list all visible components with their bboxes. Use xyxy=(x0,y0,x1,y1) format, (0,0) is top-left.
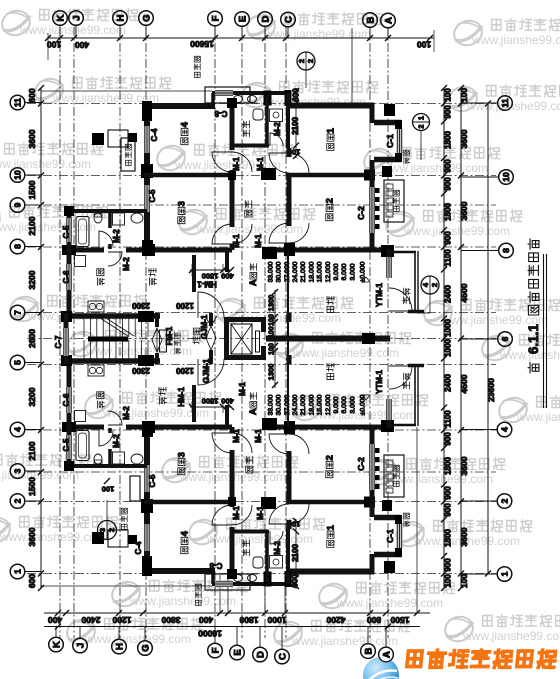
svg-text:C-1: C-1 xyxy=(385,134,395,148)
left dimension band xyxy=(40,88,42,588)
svg-text:GJM-1: GJM-1 xyxy=(200,314,209,339)
svg-text:3600: 3600 xyxy=(459,456,469,475)
svg-text:15.000: 15.000 xyxy=(317,394,324,415)
corridor east wall / bedroom1 west xyxy=(287,148,292,157)
svg-text:E: E xyxy=(237,16,248,22)
svg-text:C-1: C-1 xyxy=(385,529,395,543)
svg-text:±0.000: ±0.000 xyxy=(359,394,366,415)
svg-text:M-1: M-1 xyxy=(232,234,241,248)
svg-text:100: 100 xyxy=(443,88,452,102)
svg-text:C-5: C-5 xyxy=(148,474,157,487)
bump edge extension line xyxy=(41,90,212,92)
floor level list bottom xyxy=(267,394,274,415)
svg-text:4: 4 xyxy=(500,427,510,432)
svg-text:9: 9 xyxy=(13,202,23,207)
svg-text:1800: 1800 xyxy=(443,203,452,221)
svg-text:21.000: 21.000 xyxy=(300,261,307,282)
svg-text:F: F xyxy=(210,647,221,653)
svg-text:1: 1 xyxy=(325,127,336,133)
bath fixtures: tub toilet washer basin xyxy=(76,217,89,247)
svg-text:400: 400 xyxy=(48,615,62,625)
svg-text:M-1: M-1 xyxy=(256,157,265,171)
svg-text:M-1: M-1 xyxy=(238,382,247,396)
bath fixtures xyxy=(234,96,243,103)
svg-text:C-2: C-2 xyxy=(356,206,366,220)
top dimension band xyxy=(48,37,434,39)
AC slab top label xyxy=(194,56,200,77)
svg-text:3800: 3800 xyxy=(161,615,180,625)
axis circles right xyxy=(498,96,513,111)
figure caption 6.1.1 xyxy=(526,239,541,373)
svg-text:1: 1 xyxy=(419,116,426,120)
svg-text:100: 100 xyxy=(269,343,276,355)
svg-text:1800: 1800 xyxy=(239,615,258,625)
svg-text:900: 900 xyxy=(443,177,452,191)
svg-text:3.000: 3.000 xyxy=(349,263,356,280)
svg-text:21.000: 21.000 xyxy=(300,394,307,415)
svg-text:900: 900 xyxy=(443,432,452,446)
svg-text:C-6: C-6 xyxy=(62,270,71,283)
svg-text:1000: 1000 xyxy=(267,615,286,625)
svg-text:1500: 1500 xyxy=(27,477,37,496)
svg-text:C-6: C-6 xyxy=(62,393,71,406)
bedroom3 bottom xyxy=(176,452,187,475)
svg-text:3200: 3200 xyxy=(27,270,37,289)
svg-text:M-2: M-2 xyxy=(112,434,121,448)
stair enclosure walls xyxy=(64,313,69,328)
svg-text:F: F xyxy=(210,15,221,21)
svg-text:M-1: M-1 xyxy=(232,157,241,171)
svg-text:3: 3 xyxy=(176,201,187,206)
svg-text:9.000: 9.000 xyxy=(333,396,340,413)
svg-text:C-2: C-2 xyxy=(356,457,366,471)
svg-text:18.000: 18.000 xyxy=(308,261,315,282)
column xyxy=(61,311,72,322)
svg-text:A: A xyxy=(381,651,392,658)
svg-text:A: A xyxy=(248,408,258,415)
entry wall stub xyxy=(225,252,229,272)
column xyxy=(362,333,375,344)
svg-text:30.000: 30.000 xyxy=(276,261,283,282)
stair mid rail xyxy=(88,337,128,342)
watermarks xyxy=(0,7,138,38)
bedroom1 top xyxy=(325,127,336,150)
svg-text:3: 3 xyxy=(13,468,23,473)
bath north wall xyxy=(66,209,147,213)
door HM-1 xyxy=(198,292,224,318)
dining east wall xyxy=(192,255,196,292)
master bath top xyxy=(243,121,250,137)
bath partition xyxy=(108,211,112,228)
svg-text:100: 100 xyxy=(459,574,469,588)
svg-text:www.jianshe99.com: www.jianshe99.com xyxy=(386,472,493,486)
axis circles top xyxy=(53,11,68,26)
axis circles bottom xyxy=(49,637,64,652)
AC slab east bottom xyxy=(393,465,399,486)
svg-text:GJM-1: GJM-1 xyxy=(202,358,211,383)
svg-text:100: 100 xyxy=(417,39,431,49)
svg-text:2400: 2400 xyxy=(443,285,452,303)
svg-text:3.000: 3.000 xyxy=(349,396,356,413)
master bath bottom xyxy=(243,540,250,556)
column xyxy=(261,168,276,180)
svg-text:100: 100 xyxy=(459,88,469,102)
svg-text:www.jianshe99.com: www.jianshe99.com xyxy=(462,629,560,643)
svg-text:1500: 1500 xyxy=(390,615,409,625)
svg-text:2: 2 xyxy=(430,283,439,287)
section mark 1 upper right xyxy=(413,114,430,131)
section mark 3-2 bottom left xyxy=(98,521,117,540)
svg-text:100: 100 xyxy=(47,39,61,49)
svg-text:3600: 3600 xyxy=(459,201,469,220)
svg-text:11: 11 xyxy=(13,98,23,107)
svg-text:www.jianshe99.com: www.jianshe99.com xyxy=(264,27,371,41)
svg-text:4500: 4500 xyxy=(459,283,469,302)
svg-text:3600: 3600 xyxy=(27,129,37,148)
svg-text:24.000: 24.000 xyxy=(292,261,299,282)
svg-text:2300: 2300 xyxy=(132,301,150,310)
svg-text:B: B xyxy=(365,16,376,23)
svg-text:C-4: C-4 xyxy=(134,541,143,554)
AC slab west bottom xyxy=(130,476,140,501)
column xyxy=(284,243,295,256)
svg-text:1: 1 xyxy=(500,571,510,576)
svg-text:33.000: 33.000 xyxy=(267,394,274,415)
svg-text:8: 8 xyxy=(501,248,511,253)
svg-text:1100: 1100 xyxy=(443,410,452,428)
svg-text:2: 2 xyxy=(306,59,315,63)
svg-text:C: C xyxy=(283,16,294,23)
bay window C-1 xyxy=(374,120,401,126)
svg-text:3: 3 xyxy=(98,528,107,532)
svg-text:C-5: C-5 xyxy=(62,225,71,238)
column xyxy=(62,245,76,255)
svg-text:2100: 2100 xyxy=(27,441,37,460)
column xyxy=(364,170,375,181)
svg-text:9.000: 9.000 xyxy=(333,263,340,280)
svg-text:M-1: M-1 xyxy=(232,429,241,443)
svg-text:800: 800 xyxy=(367,615,381,625)
svg-text:C-5: C-5 xyxy=(148,189,157,202)
kitchen fixtures: fridge stove xyxy=(75,256,86,267)
AC slab west top xyxy=(125,144,131,165)
master-bath bump walls xyxy=(212,91,290,95)
AC slab top xyxy=(205,87,250,103)
svg-text:YTM-1: YTM-1 xyxy=(375,369,384,394)
svg-text:2100: 2100 xyxy=(27,216,37,235)
svg-text:HM-1: HM-1 xyxy=(177,387,186,407)
svg-text:1300: 1300 xyxy=(267,295,276,312)
C-2 window mullion marks xyxy=(375,188,380,193)
svg-text:C-5: C-5 xyxy=(62,438,71,451)
svg-text:G: G xyxy=(140,644,151,651)
east exterior wall B with C-2 window and bay opening xyxy=(370,103,375,123)
svg-text:2: 2 xyxy=(107,528,116,532)
balcony top xyxy=(403,288,410,304)
right dimension bands xyxy=(443,88,445,588)
svg-text:33.000: 33.000 xyxy=(267,261,274,282)
svg-text:900: 900 xyxy=(443,105,452,119)
svg-text:900: 900 xyxy=(443,558,452,572)
section mark 2-2 top xyxy=(297,52,315,70)
svg-text:2400: 2400 xyxy=(81,615,100,625)
interior dim 600/2100/100 xyxy=(295,88,297,158)
svg-text:M-1: M-1 xyxy=(232,506,241,520)
svg-text:900: 900 xyxy=(443,231,452,245)
balcony bottom xyxy=(403,373,410,389)
svg-text:B: B xyxy=(363,647,374,654)
door M-2 master bath xyxy=(270,133,283,146)
bay window label bottom xyxy=(403,513,409,527)
svg-text:1200: 1200 xyxy=(176,301,194,310)
bedroom divider walls axis10 xyxy=(144,173,232,178)
svg-text:400: 400 xyxy=(75,40,89,50)
svg-text:M-2: M-2 xyxy=(273,541,282,555)
svg-text:www.jianshe99.com: www.jianshe99.com xyxy=(403,224,510,238)
svg-text:www.jianshe99.com: www.jianshe99.com xyxy=(0,220,96,234)
svg-text:M-2: M-2 xyxy=(273,122,282,136)
living bottom xyxy=(327,363,334,379)
svg-text:1500: 1500 xyxy=(202,271,219,280)
svg-text:10: 10 xyxy=(13,170,23,180)
svg-text:2: 2 xyxy=(419,124,426,128)
svg-text:400: 400 xyxy=(199,615,213,625)
section mark 4-2 right xyxy=(421,276,439,294)
svg-text:6: 6 xyxy=(500,336,510,341)
living/balcony wall A with YTM-1 xyxy=(387,249,392,257)
dining bottom xyxy=(159,387,167,404)
stair break line xyxy=(100,318,128,336)
svg-text:1800: 1800 xyxy=(443,529,452,547)
svg-text:C-8: C-8 xyxy=(214,109,227,118)
column xyxy=(262,247,277,259)
svg-text:3600: 3600 xyxy=(459,129,469,148)
unit A label top xyxy=(248,264,258,286)
svg-text:www.jianshe99.com: www.jianshe99.com xyxy=(336,596,443,610)
svg-text:1800: 1800 xyxy=(443,457,452,475)
door arcs M-1 corridor bottom pair xyxy=(212,224,232,244)
svg-text:1800: 1800 xyxy=(443,131,452,149)
column xyxy=(381,245,394,257)
svg-text:12.000: 12.000 xyxy=(325,261,332,282)
stair core labels xyxy=(165,326,174,345)
svg-text:400: 400 xyxy=(221,271,234,280)
column xyxy=(285,90,292,106)
fire hydrant box xyxy=(160,330,167,352)
svg-text:24.000: 24.000 xyxy=(292,394,299,415)
svg-text:J: J xyxy=(71,15,82,20)
svg-text:www.jianshe99.com: www.jianshe99.com xyxy=(0,530,106,544)
column xyxy=(384,104,395,116)
west bedroom wall with windows C-4 C-5 xyxy=(144,103,150,126)
svg-text:4: 4 xyxy=(179,121,190,127)
bedroom2 top xyxy=(324,198,335,221)
porch columns xyxy=(92,133,104,145)
column xyxy=(142,101,152,121)
svg-text:100: 100 xyxy=(443,574,452,588)
AC slab east xyxy=(384,180,404,222)
svg-text:3600: 3600 xyxy=(27,527,37,546)
svg-text:FM-1: FM-1 xyxy=(165,326,174,345)
svg-text:www.jianshe99.com: www.jianshe99.com xyxy=(84,632,191,646)
master bath walls xyxy=(230,105,234,147)
svg-text:1: 1 xyxy=(13,569,23,574)
living west wall thin xyxy=(287,250,289,336)
svg-text:4: 4 xyxy=(13,427,23,432)
bedroom east wall (corridor west) xyxy=(230,103,235,150)
svg-text:1000: 1000 xyxy=(443,339,452,357)
svg-text:900: 900 xyxy=(443,486,452,500)
svg-text:7: 7 xyxy=(13,310,23,315)
svg-text:C-8: C-8 xyxy=(209,561,222,570)
svg-text:www.jianshe99.com: www.jianshe99.com xyxy=(381,161,488,175)
svg-text:600: 600 xyxy=(290,574,299,588)
bedroom4 top xyxy=(179,121,190,144)
lobby door GJM-1 arcs xyxy=(209,313,213,326)
svg-text:1300: 1300 xyxy=(267,364,276,381)
svg-text:1200: 1200 xyxy=(176,366,194,375)
svg-text:16000: 16000 xyxy=(198,628,222,638)
AC slab west top xyxy=(121,138,135,171)
svg-text:1100: 1100 xyxy=(269,326,276,341)
svg-text:G: G xyxy=(141,14,152,21)
svg-text:www.jianshe99.com: www.jianshe99.com xyxy=(516,410,560,424)
AC slab bottom label xyxy=(195,584,201,605)
svg-text:1000: 1000 xyxy=(443,319,452,337)
jianshe99 logo text xyxy=(407,650,556,667)
column xyxy=(227,98,237,108)
svg-text:23600: 23600 xyxy=(486,378,496,402)
svg-text:1200: 1200 xyxy=(112,615,131,625)
svg-text:1500: 1500 xyxy=(27,180,37,199)
axis circles left xyxy=(10,95,25,110)
svg-text:15.000: 15.000 xyxy=(317,261,324,282)
column xyxy=(138,311,154,322)
svg-text:1: 1 xyxy=(325,524,336,530)
svg-text:4500: 4500 xyxy=(459,374,469,393)
svg-text:3600: 3600 xyxy=(459,527,469,546)
floor level list top xyxy=(267,261,274,282)
svg-text:M-2: M-2 xyxy=(122,257,131,271)
svg-text:C-4: C-4 xyxy=(150,128,159,141)
kitchen top xyxy=(97,269,105,285)
svg-text:900: 900 xyxy=(443,159,452,173)
elevator shaft xyxy=(224,317,266,322)
column xyxy=(382,166,392,177)
west wet-zone wall with C-5 C-6 windows xyxy=(67,207,72,218)
svg-text:www.jianshe99.com: www.jianshe99.com xyxy=(291,634,398,648)
corridor bottom xyxy=(246,457,253,473)
svg-text:2: 2 xyxy=(324,198,335,203)
svg-text:www.jianshe99.com: www.jianshe99.com xyxy=(466,99,560,113)
door YTM-1 arc xyxy=(389,288,412,311)
bay window label top xyxy=(403,150,409,164)
stair treads xyxy=(84,319,148,360)
bedroom1 bottom xyxy=(325,524,336,547)
svg-text:1100: 1100 xyxy=(443,249,452,267)
AC slab east top xyxy=(393,190,399,211)
svg-text:4200: 4200 xyxy=(326,615,345,625)
svg-text:2: 2 xyxy=(297,59,306,63)
AC slab west bottom xyxy=(121,508,127,529)
kitchen/stair north wall xyxy=(63,313,160,319)
svg-text:3200: 3200 xyxy=(27,387,37,406)
svg-text:H: H xyxy=(114,643,125,650)
svg-text:27.000: 27.000 xyxy=(284,261,291,282)
svg-text:2300: 2300 xyxy=(132,366,150,375)
svg-text:100: 100 xyxy=(102,484,115,493)
column xyxy=(264,91,272,106)
svg-text:30.000: 30.000 xyxy=(276,394,283,415)
svg-text:C: C xyxy=(277,653,288,660)
svg-text:M-1: M-1 xyxy=(254,429,263,443)
wall axis8 row xyxy=(66,248,104,253)
svg-text:K: K xyxy=(55,14,66,21)
svg-text:A: A xyxy=(383,17,394,24)
svg-text:2: 2 xyxy=(13,498,23,503)
fire door FM-1 xyxy=(152,328,162,352)
svg-text:M-1: M-1 xyxy=(256,506,265,520)
elevator interior dims xyxy=(274,290,276,388)
svg-text:2: 2 xyxy=(500,498,510,503)
svg-text:100: 100 xyxy=(288,147,301,156)
svg-text:J: J xyxy=(75,643,86,648)
svg-text:2: 2 xyxy=(324,455,335,460)
svg-text:H: H xyxy=(115,14,126,21)
bedroom4 bottom xyxy=(179,530,190,553)
bottom dimension band xyxy=(44,612,430,614)
svg-text:www.jianshe99.com: www.jianshe99.com xyxy=(206,532,313,546)
svg-text:600: 600 xyxy=(27,574,37,588)
svg-text:18.000: 18.000 xyxy=(308,394,315,415)
balcony xyxy=(390,251,416,254)
svg-text:100: 100 xyxy=(269,314,276,326)
svg-text:900: 900 xyxy=(443,503,452,517)
door arcs M-1 corridor top pair xyxy=(212,152,232,172)
svg-text:6.1.1: 6.1.1 xyxy=(526,324,541,355)
svg-text:10: 10 xyxy=(501,172,511,182)
svg-text:2600: 2600 xyxy=(27,329,37,348)
kitchen bottom xyxy=(97,392,105,408)
svg-text:4: 4 xyxy=(179,530,190,536)
svg-text:5: 5 xyxy=(13,360,23,365)
svg-text:8: 8 xyxy=(13,244,23,249)
north exterior wall xyxy=(144,103,215,109)
svg-text:M-1: M-1 xyxy=(254,234,263,248)
svg-text:600: 600 xyxy=(27,88,37,102)
jianshe99 logo globe xyxy=(363,657,399,679)
svg-text:2100: 2100 xyxy=(291,117,300,135)
svg-text:YTM-1: YTM-1 xyxy=(375,282,384,307)
svg-text:11: 11 xyxy=(500,98,510,107)
svg-text:12.000: 12.000 xyxy=(325,394,332,415)
column xyxy=(141,164,153,178)
svg-text:www.jianshe99.com: www.jianshe99.com xyxy=(292,346,399,360)
svg-text:M-2: M-2 xyxy=(122,406,131,420)
door M-2 bath xyxy=(99,231,113,247)
bedroom2 bottom xyxy=(324,455,335,478)
svg-text:M-2: M-2 xyxy=(112,229,121,243)
corridor top xyxy=(245,201,252,217)
dining top xyxy=(149,268,157,285)
svg-text:100: 100 xyxy=(288,519,301,528)
unit A label bottom xyxy=(248,393,258,415)
column xyxy=(228,171,236,180)
svg-text:www.jianshe99.com: www.jianshe99.com xyxy=(471,33,560,47)
svg-text:D: D xyxy=(255,651,266,658)
axis circles B A bottom (over logo) xyxy=(361,644,376,659)
axis grid dash-dot lines xyxy=(27,27,496,638)
